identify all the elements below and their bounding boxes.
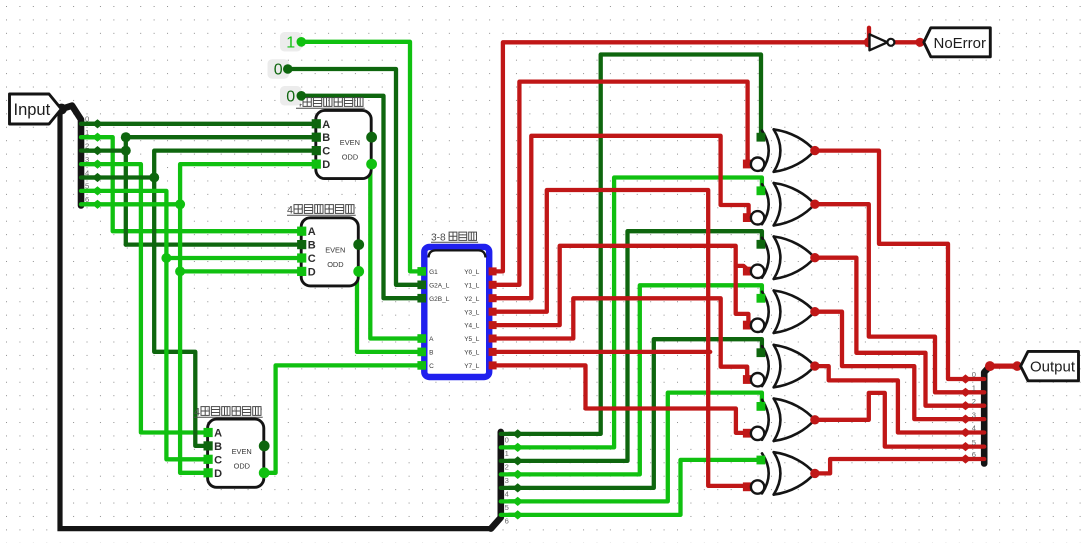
pin decoder Y3_L (489, 308, 497, 316)
pin G1 input2 wire end (743, 160, 752, 169)
junction bit4 leg (149, 173, 159, 183)
pin U1 C (312, 146, 321, 155)
wire constant0b to decoder G2B_L (301, 96, 421, 298)
pin G2 input2 wire end (743, 213, 752, 222)
pin decoder Y7_L (489, 361, 497, 369)
pin decoder Y1_L (489, 281, 497, 289)
xor gate G6 (762, 399, 815, 441)
wire data bit6 to xor7 top (509, 460, 760, 515)
negate bubble G3 input2 (751, 265, 764, 278)
wire xor2 out to out bit1 (815, 204, 965, 392)
xor gate G2 (762, 183, 815, 225)
wire splitter2 leg 4 (501, 486, 518, 490)
pin U3 ODD output (259, 467, 270, 478)
pin constant 0a output (283, 64, 293, 74)
pin U3 C (204, 455, 213, 464)
svg-text:G2A_L: G2A_L (429, 282, 450, 289)
wire splitter3 leg 1 (966, 390, 985, 394)
pin decoder A (417, 334, 426, 343)
junction bit5 checker2C branch (161, 253, 171, 263)
wire xor5 out to out bit4 (815, 366, 965, 432)
wire bit5 leg5 to vertical (84, 191, 208, 459)
svg-text:A: A (322, 119, 330, 131)
junction splitter3 leg 2 tip (960, 401, 971, 410)
svg-text:0: 0 (85, 115, 89, 124)
junction splitter2 leg 1 tip (512, 443, 523, 452)
svg-text:B: B (308, 240, 316, 252)
junction splitter1 leg 2 tip (92, 146, 103, 155)
pin decoder B (417, 348, 426, 357)
svg-text:0: 0 (972, 370, 976, 379)
pin U3 D (204, 468, 213, 477)
svg-text:5: 5 (85, 182, 89, 191)
negate bubble G6 input2 (751, 427, 764, 440)
svg-text:5: 5 (972, 438, 976, 447)
junction splitter3 leg 1 tip (960, 388, 971, 397)
svg-text:C: C (322, 146, 330, 158)
svg-text:D: D (308, 266, 316, 278)
svg-text:4: 4 (972, 424, 976, 433)
junction input pin tip (56, 104, 67, 115)
pin U1 ODD output (366, 159, 377, 170)
svg-text:C: C (214, 454, 222, 466)
wire splitter3 leg 4 (966, 430, 985, 434)
pin constant 1 output (297, 37, 307, 47)
pin decoder G2A_L (417, 281, 426, 290)
pin U1 EVEN output (366, 132, 377, 143)
svg-text:0: 0 (286, 88, 295, 105)
svg-text:4: 4 (287, 205, 293, 217)
negate bubble G5 input2 (751, 373, 764, 386)
pin G1 input1 (757, 133, 766, 142)
svg-text:3: 3 (972, 410, 976, 419)
pin U2 C (297, 253, 306, 262)
wire output bus to Output pin (990, 364, 1021, 369)
label decoder 3-8 (431, 232, 478, 243)
negate bubble G4 input2 (751, 319, 764, 332)
svg-text:D: D (214, 468, 222, 480)
svg-text:1: 1 (972, 384, 976, 393)
wire splitter3 leg 2 (966, 404, 985, 408)
output pin Output (1021, 351, 1079, 380)
svg-text:EVEN: EVEN (340, 138, 360, 147)
svg-text:5: 5 (505, 503, 509, 512)
wire Y2_L to xor2 lower input (490, 136, 749, 298)
junction inverter input (864, 37, 874, 47)
wire splitter leg 0 (81, 122, 98, 126)
wire Y5_L to xor5 lower input (490, 298, 748, 379)
xor gate G5 (762, 345, 815, 387)
svg-text:Y0_L: Y0_L (464, 269, 480, 276)
wire constant0a to decoder G2A_L (288, 69, 421, 285)
pin G6 output (810, 415, 819, 424)
pin decoder G1 (417, 267, 426, 276)
svg-text:Y4_L: Y4_L (464, 323, 480, 330)
wire data bit0 to xor1 top (509, 55, 761, 434)
svg-text:1: 1 (85, 128, 89, 137)
junction splitter1 leg 3 tip (92, 160, 103, 169)
label checker2 4-bit parity (287, 205, 356, 217)
wire bit2 leg2 stub (84, 148, 126, 152)
svg-text:Y1_L: Y1_L (464, 282, 480, 289)
wire input bus down-left-bottom (60, 107, 491, 529)
svg-text:EVEN: EVEN (232, 447, 252, 456)
wire Y7_L to xor6 lower input (490, 365, 748, 433)
wire data bit5 to xor6 top (509, 393, 762, 502)
junction Output pin input (1012, 361, 1022, 371)
pin G4 input2 wire end (743, 321, 752, 330)
svg-text:EVEN: EVEN (325, 246, 345, 255)
pin G6 input1 (757, 402, 766, 411)
pin constant 0b output (297, 91, 307, 101)
wire data bit2 to xor3 top (509, 231, 762, 461)
pin G5 input1 (757, 348, 766, 357)
wire splitter2 leg 2 (501, 459, 518, 463)
svg-text:A: A (429, 336, 434, 343)
splitter output 7-bit merge (984, 366, 990, 463)
wire bit1 leg1 to checker2 A (84, 137, 301, 231)
wire constant1 to decoder G1 (301, 42, 421, 272)
svg-text:4: 4 (85, 168, 89, 177)
wire splitter3 leg 6 (966, 457, 985, 461)
splitter bottom 7-bit fanout (491, 432, 501, 529)
wire checker3 ODD to decoder C (264, 365, 421, 472)
inverter U5 (870, 34, 895, 50)
svg-text:4: 4 (194, 407, 200, 419)
pin G7 input1 (757, 456, 766, 465)
junction splitter2 leg 5 tip (512, 497, 523, 506)
wire bit0 leg0 to checker1 A (84, 122, 316, 126)
wire splitter2 leg 3 (501, 472, 518, 476)
label checker1 4-bit parity (296, 98, 365, 110)
xor gate G4 (762, 291, 815, 333)
wire Y3_L to xor7 lower input (490, 190, 748, 486)
wire splitter3 leg 5 (966, 444, 985, 448)
wire xor7 out to out bit6 (815, 459, 965, 473)
junction splitter2 leg 4 tip (512, 483, 523, 492)
junction bit2 row B (121, 132, 131, 142)
pin G2 input1 (757, 186, 766, 195)
svg-text:3: 3 (505, 476, 509, 485)
svg-text:A: A (308, 226, 316, 238)
wire splitter leg 4 (81, 175, 98, 179)
svg-text:1: 1 (505, 449, 509, 458)
wire xor1 out to out bit0 (815, 151, 965, 379)
wire Y4_L branch into xor3 (736, 266, 747, 272)
svg-text:Input: Input (14, 101, 51, 119)
svg-text:A: A (214, 428, 222, 440)
svg-text:6: 6 (505, 517, 509, 526)
wire data bit4 to xor5 top (509, 339, 762, 488)
svg-text:2: 2 (972, 397, 976, 406)
wire bit4 leg4 stub (84, 175, 154, 179)
junction bit6 leg (175, 199, 185, 209)
junction splitter2 leg 0 tip (512, 429, 523, 438)
wire xor3 out to out bit2 (815, 258, 965, 406)
svg-text:4: 4 (505, 490, 509, 499)
svg-text:B: B (322, 132, 330, 144)
pin G7 input2 wire end (743, 482, 752, 491)
junction splitter3 leg 5 tip (960, 442, 971, 451)
pin U2 ODD output (353, 266, 364, 277)
pin decoder Y2_L (489, 294, 497, 302)
pin G7 output (810, 469, 819, 478)
svg-text:D: D (322, 159, 330, 171)
wire bit4 up to checker1 C (154, 151, 316, 178)
decoder U4 3-8 with blue border (424, 247, 489, 377)
svg-text:1: 1 (286, 34, 295, 51)
pin U2 A (297, 227, 306, 236)
svg-text:2: 2 (505, 463, 509, 472)
wire bit3 to checker3 A (84, 164, 208, 432)
output pin NoError (924, 28, 991, 57)
wire checker1 ODD to decoder A (370, 164, 421, 338)
pin U2 D (297, 267, 306, 276)
wire data bit1 to xor2 top (509, 178, 762, 448)
wire splitter leg 6 (81, 202, 98, 206)
wire splitter2 leg 1 (501, 445, 518, 449)
pin decoder C (417, 361, 426, 370)
svg-text:Y5_L: Y5_L (464, 336, 480, 343)
pin G5 output (810, 361, 819, 370)
svg-text:G1: G1 (429, 269, 438, 276)
pin U2 EVEN output (353, 239, 364, 250)
pin U1 A (312, 119, 321, 128)
constant 0b (280, 86, 302, 106)
pin G4 input1 (757, 294, 766, 303)
wire bit6 up to checker1 D (180, 164, 316, 204)
junction splitter3 leg 6 tip (960, 454, 971, 463)
constant 0a (268, 59, 290, 78)
junction splitter3 leg 0 tip (960, 374, 971, 383)
wire xor4 out to out bit3 (815, 312, 965, 419)
wire Y4_L to xor3 lower input (490, 246, 749, 325)
pin decoder Y4_L (489, 321, 497, 329)
pin U3 B (204, 441, 213, 450)
svg-text:Y6_L: Y6_L (464, 350, 480, 357)
svg-text:0: 0 (505, 436, 509, 445)
svg-text:Y2_L: Y2_L (464, 296, 480, 303)
wire bit4 down to checker3 B (154, 178, 207, 446)
wire stub above inverter junction (867, 28, 871, 43)
pin U2 B (297, 240, 306, 249)
svg-text:Y7_L: Y7_L (464, 363, 480, 370)
pin decoder Y5_L (489, 335, 497, 343)
parity checker U1 (316, 110, 371, 178)
svg-text:3: 3 (85, 155, 89, 164)
wire bit6 branch to checker2 D (180, 269, 301, 273)
constant 1 (280, 32, 302, 52)
wire bit6 vertical down (180, 204, 208, 473)
wire bit6 leg6 stub (84, 202, 180, 206)
pin G2 output (810, 200, 819, 209)
label checker3 4-bit parity (194, 407, 263, 419)
wire splitter leg 3 (81, 162, 98, 166)
negate bubble G1 input2 (751, 158, 764, 171)
junction splitter2 leg 3 tip (512, 470, 523, 479)
input pin Input (10, 94, 62, 124)
pin G3 input2 wire end (743, 267, 752, 276)
pin G4 output (810, 307, 819, 316)
splitter input 7-bit fanout (62, 106, 82, 206)
wire xor6 out to out bit5 (815, 393, 965, 447)
pin U3 A (204, 428, 213, 437)
svg-text:G2B_L: G2B_L (429, 296, 450, 303)
svg-text:B: B (429, 350, 433, 357)
parity checker U2 (301, 218, 358, 286)
junction NoError input (915, 38, 924, 47)
junction splitter2 leg 6 tip (512, 510, 523, 519)
wire splitter2 leg 0 (501, 432, 518, 436)
junction splitter1 leg 4 tip (92, 173, 103, 182)
parity checker U3 (208, 419, 264, 487)
wire data bit3 to xor4 top (509, 285, 762, 474)
svg-text:C: C (308, 253, 316, 265)
wire Y6_L across (490, 350, 711, 354)
svg-text:ODD: ODD (342, 153, 358, 162)
wire Y1_L to xor1 lower input (490, 82, 748, 285)
wire splitter2 leg 5 (501, 499, 518, 503)
pin G3 input1 (757, 240, 766, 249)
wire splitter3 leg 3 (966, 417, 985, 421)
pin G6 input2 wire end (743, 429, 752, 438)
wire splitter2 leg 6 (501, 513, 518, 517)
svg-text:ODD: ODD (234, 461, 250, 470)
negate bubble G7 input2 (751, 480, 764, 493)
junction splitter3 leg 3 tip (960, 415, 971, 424)
junction splitter1 leg 0 tip (92, 119, 103, 128)
pin U1 B (312, 133, 321, 142)
pin G1 output (810, 146, 819, 155)
xor gate G3 (762, 237, 815, 279)
pin decoder Y0_L (489, 267, 497, 275)
xor gate G1 (762, 129, 815, 171)
negate bubble G2 input2 (751, 211, 764, 224)
junction splitter1 leg 6 tip (92, 200, 103, 209)
pin decoder Y6_L (489, 348, 497, 356)
junction splitter3 leg 4 tip (960, 428, 971, 437)
pin U1 D (312, 160, 321, 169)
junction splitter2 leg 2 tip (512, 456, 523, 465)
wire bit2 to checker2 B (126, 242, 301, 246)
svg-text:NoError: NoError (934, 35, 987, 52)
wire splitter leg 5 (81, 189, 98, 193)
wire splitter leg 1 (81, 135, 98, 139)
junction splitter1 leg 5 tip (92, 186, 103, 195)
svg-text:ODD: ODD (327, 260, 343, 269)
junction bit6 checker2D branch (175, 266, 185, 276)
wire bit5 branch to checker2 C (166, 256, 301, 260)
junction bit2 row C (121, 146, 131, 156)
svg-text:Y3_L: Y3_L (464, 309, 480, 316)
pin U3 EVEN output (259, 441, 270, 452)
wire bit2 to checker1 B (126, 135, 316, 139)
wire bit2 vertical (124, 137, 128, 244)
svg-text:0: 0 (274, 62, 283, 79)
pin decoder G2B_L (417, 294, 426, 303)
junction splitter1 leg 1 tip (92, 133, 103, 142)
svg-text:6: 6 (85, 195, 89, 204)
xor gate G7 (762, 452, 815, 494)
svg-text:C: C (429, 363, 434, 370)
wire checker2 ODD to decoder B (357, 271, 421, 352)
svg-text:2: 2 (85, 141, 89, 150)
svg-text:6: 6 (972, 450, 976, 459)
wire splitter3 leg 0 (966, 377, 985, 381)
junction output splitter root (985, 361, 995, 371)
wire inverter to NoError pin (894, 40, 924, 44)
pin G3 output (810, 253, 819, 262)
wire splitter leg 2 (81, 148, 98, 152)
svg-text:Output: Output (1030, 359, 1076, 376)
svg-text:B: B (214, 441, 222, 453)
pin G5 input2 wire end (743, 375, 752, 384)
wire Y0_L to inverter (490, 42, 870, 271)
